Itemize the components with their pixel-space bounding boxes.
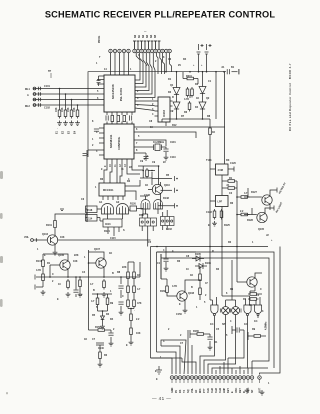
labels near D1 D2: [195, 253, 211, 265]
box G3 under gates: [103, 219, 122, 227]
svg-text:47K: 47K: [137, 302, 142, 305]
svg-text:10K: 10K: [55, 107, 58, 112]
coupling resistor R105: [111, 116, 114, 122]
ground bottom-left: [109, 341, 114, 346]
resistor R19: [127, 298, 130, 309]
svg-text:4.7K: 4.7K: [36, 269, 41, 272]
wire R35: [96, 345, 104, 362]
left terminals: [34, 275, 36, 290]
wire: Q3 connections: [33, 206, 151, 251]
wires to Q4 Q5: [244, 188, 277, 215]
dots on riser: [236, 196, 238, 215]
pull-down resistor R101: [59, 89, 61, 109]
coupling part row between U1 and U2: C103: [106, 115, 108, 120]
svg-text:10K: 10K: [67, 107, 70, 112]
svg-text:C: C: [138, 54, 140, 57]
resistor R4 between amps: [188, 101, 191, 112]
wire: rail to A1: [176, 72, 178, 88]
coupling resistor R107: [123, 116, 126, 122]
svg-text:R: R: [212, 250, 214, 253]
svg-text:10.24MHz: 10.24MHz: [153, 141, 165, 144]
terminal T2: [174, 188, 176, 193]
top terminals row 2 with header bars: [133, 49, 172, 53]
wire: rail drop to R1: [183, 72, 198, 84]
svg-text:R165: R165: [193, 330, 199, 333]
svg-text:R170: R170: [249, 304, 255, 307]
labels in gate cluster: [99, 201, 136, 240]
keying transistor Q5: [257, 212, 267, 222]
ground under C31: [119, 310, 124, 315]
svg-text:AF: AF: [195, 389, 198, 393]
svg-text:IC203: IC203: [162, 110, 166, 117]
header pins above row 2: [133, 41, 161, 49]
connector pin 22 (separate): [258, 376, 262, 380]
svg-text:4.7K: 4.7K: [172, 285, 177, 288]
svg-text:22K: 22K: [74, 254, 79, 257]
enclosure line B (middle): [157, 252, 275, 368]
wires in gate cluster: [86, 209, 144, 237]
svg-text:C150: C150: [176, 313, 182, 316]
transistor Q6: [60, 260, 70, 270]
svg-text:1K: 1K: [196, 97, 199, 100]
svg-text:D105: D105: [195, 253, 201, 256]
wire R28: [248, 332, 266, 340]
left riser wire x87: [86, 150, 88, 206]
test point mark left: [50, 73, 52, 78]
svg-text:10K: 10K: [73, 107, 76, 112]
svg-text:C101: C101: [44, 85, 50, 88]
resistor R6: [226, 187, 237, 190]
svg-text:PROG: PROG: [98, 36, 101, 43]
wire: between IF1 and IF2: [210, 169, 222, 247]
svg-text:K102: K102: [166, 228, 172, 231]
svg-text:R131: R131: [46, 224, 52, 227]
svg-text:TP: TP: [48, 70, 51, 73]
svg-text:C120: C120: [230, 162, 236, 165]
volume control transistor Q3: [47, 235, 57, 245]
resistor R26: [199, 286, 202, 297]
gate G2 (round top): [117, 204, 129, 215]
svg-text:CONTROL: CONTROL: [117, 136, 121, 150]
svg-text:R125: R125: [224, 224, 230, 227]
junction dots: [142, 165, 159, 171]
ground under ladder: [129, 340, 134, 345]
gate G10 (round top): [141, 200, 150, 209]
wires mid column: [161, 254, 200, 300]
svg-text:C: C: [52, 273, 54, 276]
input connector at Q3: [31, 238, 37, 242]
capacitor C100 left of U1: [97, 81, 101, 87]
ground labels: [56, 128, 77, 134]
dot junctions: [67, 262, 105, 278]
ground under C33: [164, 266, 169, 271]
crystal Y1: [152, 144, 164, 151]
wire: U3 pins to left (to U1): [155, 101, 173, 126]
svg-text:R: R: [172, 96, 174, 99]
keying transistor Q4: [262, 195, 272, 205]
mid column resistor R33: [96, 296, 99, 307]
svg-text:— 41 —: — 41 —: [152, 396, 171, 401]
wire left column: [36, 265, 140, 287]
capacitor C31: [118, 302, 123, 304]
svg-text:RX PLL and Repeater Control: RX PLL and Repeater Control BOOK 4-7: [289, 63, 292, 131]
resistor R120 right of gates: [130, 206, 137, 211]
svg-text:CH2: CH2: [211, 387, 214, 393]
enclosure line A (outer): [266, 247, 280, 374]
svg-text:R150: R150: [95, 326, 101, 329]
U2 right pin stubs and wires: [134, 127, 225, 153]
dots on bus: [156, 246, 238, 248]
bottom connector row J1: [170, 376, 254, 380]
ground under R104: [75, 121, 80, 126]
transistor Q7: [96, 258, 106, 268]
zener diode D1: [192, 256, 204, 262]
svg-text:R118: R118: [87, 209, 93, 212]
U2 bottom pin labels: [104, 164, 127, 167]
wire: U4 right to riser: [125, 180, 140, 200]
transistor Q8: [177, 291, 187, 301]
resistor R11 left column: [42, 258, 45, 269]
U2 left labels: [92, 138, 94, 147]
K1 labels: [139, 214, 143, 217]
svg-text:C: C: [260, 288, 262, 291]
labels below IF2: [208, 224, 230, 227]
wires Q9: [237, 247, 262, 292]
U1 top pin stubs: [111, 53, 129, 75]
capacitor C35: [237, 327, 239, 332]
wire: amp outputs to bus y119: [162, 72, 216, 247]
bottom-left comps: resistor R23: [96, 329, 107, 332]
labels Q8: [160, 290, 195, 316]
wire: supply caps C1 C2 to rail: [199, 60, 207, 72]
svg-text:ML1: ML1: [25, 88, 31, 91]
transistor Q9: [247, 277, 257, 287]
svg-text:PLL IC201: PLL IC201: [119, 88, 123, 101]
capacitor C33: [163, 259, 168, 261]
svg-text:10K: 10K: [136, 332, 141, 335]
interface box IF2: [216, 196, 229, 207]
wire: rail to A3: [202, 72, 204, 87]
svg-text:SCHEMATIC RECEIVER PLL/REPEATE: SCHEMATIC RECEIVER PLL/REPEATER CONTROL: [45, 10, 275, 20]
resistor R2 between amps: [186, 87, 189, 98]
mid column wires: [92, 294, 112, 316]
comps under digital: resistor R27: [195, 333, 206, 336]
svg-text:X101: X101: [170, 141, 176, 144]
ground under R31: [78, 292, 83, 297]
svg-text:10K: 10K: [60, 236, 65, 239]
svg-text:R160: R160: [160, 290, 166, 293]
U2 bottom pin stubs: [107, 159, 132, 163]
wire bundle: U1 right pins up to row-2 terminals: [135, 53, 155, 111]
coupling capacitor C104: [130, 115, 132, 120]
IC U1 (PLL synthesizer): [104, 75, 135, 112]
svg-text:DET: DET: [239, 388, 242, 393]
buffer amp A1: [173, 88, 180, 95]
wires K1: [142, 214, 153, 247]
dot: [199, 279, 201, 281]
capacitor C34: [207, 337, 212, 339]
svg-text:R120: R120: [130, 203, 136, 206]
labels bottom-left: [84, 326, 104, 350]
ground under C34: [208, 345, 213, 350]
labels near amps: [170, 84, 210, 114]
buffer amp A4: [199, 102, 206, 109]
svg-text:4.7K: 4.7K: [184, 98, 189, 101]
ground under Q3: [53, 250, 58, 255]
resistor R3 between amps: [191, 87, 194, 98]
junction dots on bus: [176, 118, 204, 120]
label above enclosure corner: [266, 234, 273, 242]
scattered value labels (scan speckle): [52, 54, 254, 359]
relay box K1 (sectioned): [140, 218, 157, 226]
resistor R16: [133, 270, 136, 281]
svg-text:C115: C115: [110, 237, 116, 240]
coupling resistor R106: [117, 116, 120, 122]
wire: bases from riser x237: [237, 197, 239, 215]
labels near C20: [221, 66, 235, 69]
svg-text:D106: D106: [205, 262, 211, 265]
interface box IF1 (top right small): [216, 164, 229, 175]
svg-text:R121: R121: [104, 230, 110, 233]
svg-text:B: B: [93, 289, 95, 292]
wires top of cluster: [138, 166, 172, 185]
gate G11 (round top): [154, 200, 163, 210]
resistor R8 below IF2: [220, 209, 223, 220]
wire at C33: [165, 247, 167, 267]
svg-text:R127: R127: [251, 191, 257, 194]
labels lower-left: [36, 248, 101, 276]
top terminals TP1-TP5 (channel program): [109, 49, 131, 53]
resistor R40 under Q9: [248, 293, 259, 296]
svg-text:Q108: Q108: [188, 292, 195, 295]
left input lines IN1-IN4 into U1: [33, 89, 104, 106]
svg-text:1K: 1K: [109, 252, 112, 255]
svg-text:KEY: KEY: [227, 388, 230, 393]
ground under R103: [69, 121, 74, 126]
wire: crystal net: [152, 140, 166, 155]
supply capacitor C1 (+): [197, 44, 204, 60]
collector resistor R131: [54, 221, 57, 228]
gate outputs down: [214, 315, 258, 323]
U2 top pin stubs: [107, 122, 132, 125]
emitter resistor R14: [103, 279, 106, 290]
gate inputs: [210, 247, 260, 307]
resistor R32 on riser x210: [209, 126, 212, 137]
svg-text:4.5M: 4.5M: [218, 169, 223, 172]
svg-text:1K: 1K: [190, 274, 193, 277]
9V supply rail: [88, 72, 238, 150]
wire: IF1 right terminal: [228, 167, 234, 172]
svg-text:OSC: OSC: [235, 387, 238, 393]
resistor R22: [130, 326, 133, 337]
gate G6: [244, 305, 251, 316]
wire: U2 bottom drops into logic section: [104, 163, 143, 183]
U1 left pin stubs: [97, 80, 104, 85]
svg-text:9V: 9V: [178, 64, 181, 67]
svg-text:Q104: Q104: [42, 233, 49, 236]
ground right below row: [245, 388, 250, 393]
ground under Q8: [183, 308, 188, 313]
ground left of connector row: [156, 366, 162, 374]
Q3 labels: [24, 224, 65, 257]
svg-text:B: B: [112, 272, 114, 275]
dots mid column: [97, 293, 104, 312]
terminal T3: [174, 203, 176, 208]
svg-text:MC14011: MC14011: [103, 189, 114, 192]
resistor R35 bottom-left deep: [99, 350, 102, 361]
resistor R41 under Q9: [248, 298, 259, 301]
svg-text:R201: R201: [186, 75, 192, 78]
rail end terminal: [238, 69, 240, 74]
capacitor C36 lower-left: [73, 290, 78, 292]
gate G1 (round top): [102, 204, 114, 215]
meter symbol M1 (circle with X): [222, 307, 230, 315]
wire: A3 to A4: [202, 94, 204, 103]
enclosure line C (inner): [161, 258, 269, 361]
small comp left margin (cap C116): [60, 209, 64, 211]
svg-text:22K: 22K: [122, 266, 127, 269]
ground under R7: [212, 221, 217, 226]
ground under R35: [98, 362, 103, 367]
svg-text:TX: TX: [183, 390, 186, 393]
scattered value labels pass 2: [37, 56, 270, 385]
pull-down resistor R103: [71, 100, 73, 109]
IC U3 (divider): [158, 97, 170, 122]
capacitor C106 right of crystal: [163, 149, 168, 151]
svg-text:Q106: Q106: [58, 254, 65, 257]
Q4 Q5 output terminals: [274, 188, 277, 211]
small box L2 left of gates: [86, 215, 98, 222]
meter symbol M2 (circle with X): [232, 307, 240, 315]
resistor R17: [127, 284, 130, 295]
svg-text:4013: 4013: [105, 223, 111, 226]
labels Q10: [144, 184, 170, 200]
resistor R21: [130, 312, 133, 323]
ground under left column: [41, 290, 46, 295]
svg-text:GND: GND: [171, 387, 174, 393]
svg-text:1K: 1K: [212, 131, 215, 134]
capacitor C20 on rail: [227, 69, 229, 74]
svg-text:MC145106: MC145106: [111, 84, 115, 99]
supply capacitor C2 (+): [205, 44, 212, 60]
U1 bottom pin stubs: [107, 112, 132, 115]
svg-text:RX: RX: [179, 389, 182, 393]
svg-text:C110: C110: [170, 156, 176, 159]
svg-text:MM48141: MM48141: [109, 134, 113, 148]
svg-text:SQ: SQ: [187, 389, 190, 393]
right resistor ladder column: [121, 262, 140, 284]
svg-text:Q107: Q107: [94, 248, 101, 251]
svg-text:C140: C140: [98, 347, 104, 350]
resistor R20: [133, 298, 136, 309]
wires: Q6/Q7 collectors up and tops: [43, 250, 104, 278]
resistor R10 at Q5 base: [239, 213, 250, 216]
wires under gates: [140, 196, 175, 214]
svg-text:C: C: [122, 295, 124, 298]
labels right of crystal: [170, 141, 176, 159]
horizontal bus y=246.5: [151, 246, 269, 248]
svg-text:CH1: CH1: [207, 387, 210, 393]
transistor Q10: [152, 184, 162, 194]
labels under Q9: [249, 288, 262, 307]
svg-text:SP: SP: [251, 389, 254, 393]
resistor R9 at Q4 base: [239, 196, 250, 199]
Q4 Q5 labels: [247, 182, 287, 231]
ground under D3: [100, 324, 105, 329]
svg-text:R148: R148: [163, 197, 169, 200]
svg-text:CH3: CH3: [215, 387, 218, 393]
wire: U1 pin to C100: [99, 76, 105, 81]
svg-text:10K: 10K: [73, 260, 78, 263]
resistor R1 (under rail, horizontal): [185, 77, 196, 80]
svg-text:C102: C102: [44, 107, 50, 110]
ground under C106: [164, 155, 169, 160]
svg-text:1K: 1K: [137, 274, 140, 277]
x88 riser to bottom section: [89, 278, 97, 330]
svg-text:R128: R128: [247, 219, 253, 222]
wires R31 C36: [76, 277, 80, 297]
connector pin labels (rotated): [171, 387, 262, 393]
resistor R24 (Q8 base): [166, 284, 169, 295]
capacitor C117 at riser top: [83, 154, 89, 156]
svg-text:LPF: LPF: [218, 201, 223, 204]
svg-text:A: A: [27, 94, 29, 97]
left margin scan smudges: [0, 171, 8, 394]
svg-text:SP: SP: [222, 323, 226, 326]
svg-text:LMP: LMP: [223, 387, 226, 393]
terminal T1: [174, 176, 176, 181]
labels above row 2: [134, 30, 157, 38]
junction dots on input lines: [59, 88, 79, 106]
wire: rail drop to IF1: [224, 72, 226, 164]
wires K2: [163, 210, 168, 230]
svg-text:T101: T101: [206, 159, 212, 162]
ladder labels: [122, 266, 142, 335]
terminal bars between row shapes: [220, 309, 241, 313]
small box L1 left of gates: [86, 206, 98, 213]
U2 left pin stubs: [88, 128, 104, 155]
extra resistor R31 lower-left: [79, 278, 82, 289]
zener diode D2: [195, 263, 207, 269]
svg-text:ML2: ML2: [25, 105, 31, 108]
wire at C35: [232, 326, 244, 334]
gate G7: [254, 305, 261, 316]
pull-down resistor R102: [65, 94, 67, 108]
resistor value labels: [55, 107, 76, 112]
svg-text:R141: R141: [36, 260, 42, 263]
svg-text:1K: 1K: [84, 338, 87, 341]
svg-text:C: C: [163, 340, 165, 343]
svg-text:Q110: Q110: [164, 184, 170, 187]
wires Q10: [148, 182, 172, 206]
input connectors (plug symbols): [33, 87, 41, 107]
wires bottom-left: [96, 330, 111, 343]
buffer amp A2: [173, 102, 180, 109]
connector pin lower stubs: [172, 379, 260, 383]
wire: A1 to A2: [176, 95, 178, 103]
ground 2: [102, 292, 107, 297]
input labels: [25, 85, 50, 110]
relay box K2 (sectioned): [161, 217, 175, 226]
wires under Q9: [250, 291, 262, 294]
ground under R101: [57, 121, 62, 126]
resistor R30: [146, 168, 149, 179]
wires right ladder: [121, 281, 134, 341]
IC U4 (quad gate): [99, 183, 125, 196]
resistor R5 right of IF boxes: [226, 180, 237, 183]
emitter resistor R13: [67, 279, 70, 290]
labels under digital: [193, 330, 218, 344]
